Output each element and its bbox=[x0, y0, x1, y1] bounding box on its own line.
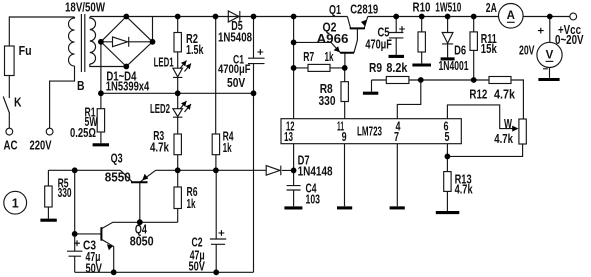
svg-text:D6: D6 bbox=[454, 44, 466, 58]
svg-text:Fu: Fu bbox=[19, 44, 32, 58]
svg-text:103: 103 bbox=[306, 193, 321, 207]
svg-text:13: 13 bbox=[284, 130, 293, 144]
svg-text:7: 7 bbox=[394, 130, 399, 144]
svg-text:W: W bbox=[504, 117, 512, 131]
svg-text:0.25Ω: 0.25Ω bbox=[70, 126, 96, 140]
svg-text:R12: R12 bbox=[469, 88, 487, 102]
svg-text:50V: 50V bbox=[189, 259, 206, 273]
svg-text:20V: 20V bbox=[519, 44, 535, 58]
svg-text:R7: R7 bbox=[303, 50, 314, 64]
svg-text:470μF: 470μF bbox=[365, 38, 392, 52]
svg-text:1W510: 1W510 bbox=[435, 1, 461, 15]
svg-text:5: 5 bbox=[445, 130, 450, 144]
svg-text:4700μF: 4700μF bbox=[218, 64, 251, 76]
svg-text:330: 330 bbox=[319, 94, 336, 108]
svg-text:LED1: LED1 bbox=[154, 56, 174, 70]
svg-text:1N4148: 1N4148 bbox=[298, 165, 333, 179]
svg-text:1N4001: 1N4001 bbox=[439, 59, 469, 73]
svg-text:K: K bbox=[14, 96, 22, 110]
svg-text:4.7k: 4.7k bbox=[494, 88, 515, 102]
svg-text:330: 330 bbox=[58, 186, 72, 200]
svg-text:18V/50W: 18V/50W bbox=[65, 1, 105, 15]
svg-text:A: A bbox=[507, 10, 515, 22]
svg-text:4.7k: 4.7k bbox=[150, 141, 169, 155]
svg-text:15k: 15k bbox=[481, 42, 497, 56]
svg-text:1.5k: 1.5k bbox=[186, 43, 204, 57]
svg-text:V: V bbox=[546, 50, 554, 62]
svg-text:C2819: C2819 bbox=[350, 3, 378, 17]
svg-text:Q1: Q1 bbox=[329, 3, 341, 17]
svg-text:8050: 8050 bbox=[130, 235, 154, 249]
svg-text:1N5408: 1N5408 bbox=[218, 31, 252, 45]
svg-text:AC: AC bbox=[4, 138, 18, 152]
svg-text:R10: R10 bbox=[413, 1, 431, 15]
svg-text:1: 1 bbox=[12, 196, 19, 210]
svg-text:50V: 50V bbox=[227, 76, 246, 90]
svg-text:9: 9 bbox=[342, 130, 347, 144]
svg-text:4.7k: 4.7k bbox=[494, 132, 513, 146]
svg-text:LM723: LM723 bbox=[357, 125, 382, 139]
svg-text:8550: 8550 bbox=[105, 171, 131, 185]
svg-text:2A: 2A bbox=[486, 1, 497, 15]
svg-text:0~20V: 0~20V bbox=[555, 33, 584, 47]
svg-text:1k: 1k bbox=[223, 141, 232, 155]
svg-text:R9: R9 bbox=[369, 61, 382, 75]
svg-text:Q3: Q3 bbox=[111, 152, 123, 166]
svg-text:1N5399x4: 1N5399x4 bbox=[106, 80, 150, 94]
svg-text:4.7k: 4.7k bbox=[455, 183, 473, 197]
svg-text:LED2: LED2 bbox=[150, 102, 170, 116]
svg-text:8.2k: 8.2k bbox=[386, 61, 407, 75]
svg-text:50V: 50V bbox=[86, 262, 103, 276]
svg-text:1k: 1k bbox=[325, 50, 334, 64]
svg-text:1k: 1k bbox=[187, 197, 196, 211]
svg-text:B: B bbox=[77, 79, 85, 93]
svg-text:220V: 220V bbox=[30, 138, 52, 152]
svg-text:A966: A966 bbox=[317, 32, 349, 46]
